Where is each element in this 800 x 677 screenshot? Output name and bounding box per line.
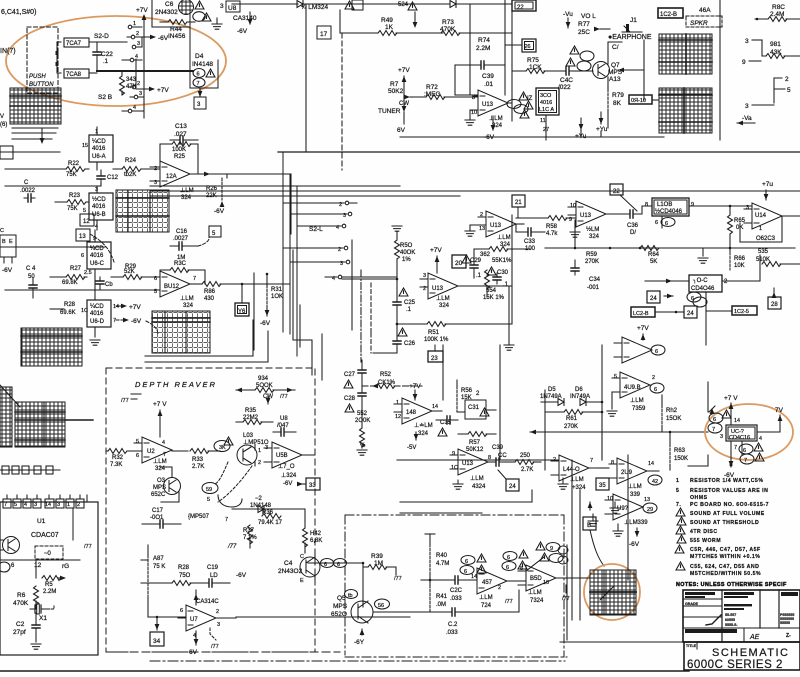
capacitor C40 .022 [558,67,587,91]
svg-text:7.3K: 7.3K [110,462,122,468]
svg-text:5: 5 [676,488,679,494]
rail y248 [545,247,795,250]
label k77 [227,544,237,550]
svg-text:U8: U8 [228,5,237,12]
svg-text:J1: J1 [630,17,637,24]
svg-text:R52: R52 [380,372,392,378]
svg-text:4: 4 [24,502,27,508]
svg-text:⊥LM: ⊥LM [436,295,450,302]
svg-text:LC2-B: LC2-B [633,311,649,317]
svg-text:724: 724 [481,603,492,609]
svg-text:7: 7 [193,276,196,282]
capacitor C33 feedback [516,224,545,252]
svg-text:/77: /77 [394,576,402,582]
svg-text:3: 3 [217,622,220,628]
node box 34 [148,616,186,646]
svg-text:6: 6 [464,569,467,575]
ground R54 [504,287,514,350]
diag wire left [0,385,20,407]
terminal 3 right [745,38,762,45]
capacitor C35b [436,416,458,426]
svg-text:14: 14 [734,418,740,424]
svg-text:2: 2 [136,31,139,37]
wire vertical S2 column [143,48,145,118]
label +Yu right [575,118,587,140]
svg-text:14: 14 [113,304,119,310]
vertical x706 [705,292,707,345]
svg-text:-6V: -6V [236,572,247,579]
svg-text:6: 6 [507,555,510,561]
svg-text:PUSH: PUSH [29,74,46,80]
svg-text:15OK: 15OK [666,416,681,422]
svg-text:29: 29 [647,507,653,513]
capacitor C13 [170,123,198,144]
svg-text:R61: R61 [566,416,578,422]
svg-text:R31: R31 [271,287,283,293]
svg-text:3: 3 [137,41,140,47]
wire U9 chain vertical [601,412,603,460]
svg-text:½CD: ½CD [92,196,106,203]
svg-text:+7V: +7V [409,383,421,390]
resistor H42 6.8K [303,520,323,553]
circled 5b [202,483,218,504]
hatch grid bottom right [590,570,636,615]
svg-text:934: 934 [258,376,269,382]
node box 12 [80,214,94,226]
terminal 1 [128,21,142,29]
svg-text:7: 7 [4,502,7,508]
hatch speaker grid B [659,88,712,133]
wire JO-C in [645,279,689,284]
capacitor C19 [205,565,230,587]
svg-text:/77: /77 [84,544,92,550]
resistor R28 750 [163,565,204,586]
svg-text:4016: 4016 [92,204,106,210]
svg-text:R72: R72 [426,84,438,91]
svg-text:8: 8 [611,460,614,466]
resistor R36 79.4K [258,510,283,526]
vertical x342 [341,33,343,170]
svg-text:4.7k: 4.7k [546,231,558,237]
wire x254 vertical [253,273,255,350]
svg-text:OHMS: OHMS [690,495,708,501]
svg-text:C4: C4 [284,560,293,567]
svg-text:C: C [0,228,4,234]
svg-text:981: 981 [770,41,781,48]
svg-text:⊥7_O: ⊥7_O [278,463,295,470]
svg-text:C: C [300,554,304,560]
svg-text:+7V: +7V [136,7,148,14]
node box 22 top [512,0,536,11]
vertical x306 [305,5,307,152]
svg-text:75O: 75O [179,573,191,579]
svg-text:A13: A13 [609,76,621,83]
ic U8 [220,1,257,35]
svg-text:4.7M: 4.7M [436,561,449,567]
svg-text:C36: C36 [627,223,639,229]
wire right link [218,174,291,234]
capacitor C18 .047 [273,416,296,436]
warning diamonds top [193,1,211,21]
wire S2L4 to R50 [342,278,396,280]
svg-text:50K2: 50K2 [388,88,404,95]
svg-text:R23: R23 [69,193,81,199]
node box 24b [677,306,697,318]
wire bottom left entry [141,560,163,583]
small box top [352,0,450,10]
svg-text:S2-D: S2-D [94,33,109,40]
vertical bus x283 [282,152,284,332]
ground L44 [558,478,568,489]
svg-text:35: 35 [599,483,606,489]
svg-text:CA3140: CA3140 [233,15,257,22]
wire vertical inner [135,59,137,87]
svg-text:+7V: +7V [637,325,649,332]
ground rail248 [698,248,708,263]
svg-text:2U9: 2U9 [621,470,633,476]
svg-text:M5TCHED/WITHIN 50.5%: M5TCHED/WITHIN 50.5% [690,571,761,577]
potentiometer R7 50K TUNER [378,67,413,134]
svg-text:C25: C25 [404,300,416,306]
svg-text:4324: 4324 [472,484,486,490]
svg-text:~0: ~0 [44,551,52,557]
svg-text:R28: R28 [64,302,76,308]
svg-text:IZ: IZ [527,96,533,102]
terminal 4b [122,105,144,113]
svg-text:⊥324: ⊥324 [281,472,297,479]
svg-text:D4: D4 [195,53,204,60]
wire B5D diag [526,557,544,571]
capacitor C39b [488,445,515,466]
svg-text:MPS: MPS [153,485,166,491]
wire depth out [292,509,305,520]
svg-text:R36: R36 [262,510,274,516]
svg-text:2: 2 [216,609,219,615]
svg-text:.1: .1 [103,59,109,65]
svg-text:7359: 7359 [632,406,646,412]
svg-text:X1: X1 [39,615,47,622]
label V6 left [0,114,7,128]
capacitor C20 [421,576,477,602]
diode D5 [540,387,564,406]
svg-text:R63: R63 [674,448,686,454]
terminal 3b right [745,103,774,110]
svg-text:10: 10 [570,203,576,209]
svg-text:9: 9 [452,451,455,457]
node box 17 [317,26,331,39]
node 3 box below D4 [194,88,206,109]
svg-text:−2: −2 [255,496,263,502]
svg-text:13: 13 [644,497,650,503]
wire 7CA8 row [89,72,97,74]
title check mark [706,615,760,642]
svg-text:23: 23 [431,356,438,362]
ground U9B [607,392,617,416]
svg-text:5K: 5K [650,259,657,265]
svg-text:9: 9 [569,217,572,223]
svg-text:8: 8 [645,202,648,208]
svg-text:59: 59 [206,487,212,493]
svg-text:CA314C: CA314C [196,599,219,605]
circled 3a [214,437,233,452]
vertical dashed x371 [370,283,372,353]
circled 56 [375,599,390,609]
op-amp U9B [612,372,664,412]
terminal 9 right [742,59,761,66]
svg-text:CK1%: CK1% [378,380,396,386]
wire y432 arrow left [530,430,708,435]
svg-text:LD: LD [210,573,218,579]
svg-text:C: C [24,180,29,186]
svg-text:R56: R56 [461,388,473,394]
svg-text:SOUND AT FULL VOLUME: SOUND AT FULL VOLUME [690,511,765,517]
svg-text:.0027: .0027 [173,236,189,242]
svg-text:╮O-C: ╮O-C [692,278,708,284]
resistor R55 200K [355,411,370,449]
svg-text:-6Y: -6Y [354,639,365,646]
capacitor C30 [487,267,509,288]
svg-text:(6): (6) [0,122,7,128]
depth box dashed [106,368,315,652]
svg-text:10K: 10K [734,263,745,269]
inverse box TC2-B [658,8,683,18]
svg-text:/047: /047 [277,423,289,429]
svg-text:CDAC07: CDAC07 [31,532,59,539]
svg-text:362: 362 [480,252,491,258]
dashed bottom lines [106,642,683,657]
resistor R8 22M [36,560,66,595]
wire bus row2 [5,289,160,291]
svg-text:R86: R86 [204,289,216,295]
label +7V bottom mid [637,325,649,340]
ic U6-C CD4016 [81,230,111,277]
svg-text:1OK: 1OK [271,294,283,300]
svg-text:B: B [587,522,591,529]
svg-text:R28: R28 [178,565,190,571]
svg-text:3CO: 3CO [540,93,552,99]
svg-text:6: 6 [506,565,509,571]
svg-text:SOUND AT THRESHOLD: SOUND AT THRESHOLD [690,520,759,526]
svg-text:-6V: -6V [2,267,13,274]
vertical left of ellipse [688,382,708,466]
U1 label [31,518,59,539]
svg-text:75 K: 75 K [153,564,165,570]
svg-text:2: 2 [137,81,140,87]
svg-text:1: 1 [676,478,679,484]
dashed contact [35,546,63,559]
ground U1 right [73,508,92,550]
svg-text:652C: 652C [151,492,166,498]
svg-text:.033: .033 [450,596,462,602]
svg-text:C.2: C.2 [448,622,458,628]
svg-text:L1C A: L1C A [539,107,554,113]
svg-text:CD4C16: CD4C16 [729,435,750,441]
wire S2L bus links [283,203,330,262]
resistor R43 47K [120,71,137,95]
svg-text:.1: .1 [503,282,509,288]
resistor R24 [113,158,160,178]
svg-text:⊥LM: ⊥LM [528,589,542,596]
svg-text:11: 11 [540,118,546,124]
svg-text:R74: R74 [478,37,490,44]
svg-text:26: 26 [525,44,531,50]
pin row boxes left [0,466,60,474]
capacitor C36 [606,206,652,236]
terminal 3b [130,87,144,99]
resistor R39 1M [363,553,402,582]
svg-text:/022: /022 [558,84,571,91]
ic UC CD4016 [720,425,762,451]
svg-text:148: 148 [406,410,417,416]
svg-text:H42: H42 [310,531,322,537]
svg-text:R73: R73 [442,19,454,26]
op-amp BU12 [152,271,196,309]
label +7V c28 [409,383,421,400]
svg-text:33: 33 [309,483,316,489]
op-amp U14 [744,203,800,242]
svg-text:+324: +324 [572,485,586,491]
svg-text:3: 3 [745,103,749,110]
svg-text:U5B: U5B [276,453,288,459]
long rail y191 [150,190,800,192]
svg-text:552: 552 [357,411,368,417]
svg-text:DEPTH REAVER: DEPTH REAVER [135,380,217,389]
svg-text:.01: .01 [484,81,493,88]
svg-text:6: 6 [197,72,200,78]
svg-text:U13: U13 [432,286,444,292]
node box 35 [596,478,609,490]
wire y460 [397,459,559,461]
svg-text:6: 6 [665,221,668,227]
svg-text:¼CD: ¼CD [90,304,104,310]
title main row [684,642,800,671]
wire Q5 out [373,611,425,613]
svg-text:52K: 52K [124,269,135,275]
resistor R63 150K [669,431,688,470]
wire U13C out [515,217,517,219]
op-amp U13B [420,273,512,309]
svg-text:V: V [0,114,4,120]
svg-text:R32: R32 [112,455,124,461]
svg-text:554: 554 [486,288,497,294]
svg-text:rG: rG [62,563,69,570]
svg-text:2: 2 [258,460,261,466]
label 46A [699,7,711,14]
switch box 7CA7 [64,38,89,47]
svg-text:D/: D/ [630,230,636,236]
svg-text:BU12: BU12 [164,284,180,290]
svg-text:NOTES: UNLESS OTHERWISE SPECIF: NOTES: UNLESS OTHERWISE SPECIF [676,582,787,588]
resistor R37 [243,525,257,548]
svg-text:50: 50 [28,274,35,280]
svg-text:⊥LM: ⊥LM [153,458,167,465]
svg-text:R3C: R3C [174,261,187,267]
resistor R31 10K [260,274,283,327]
vertical bus x297 [296,186,298,356]
svg-text:D6: D6 [575,387,583,393]
title block texts [685,592,798,639]
svg-text:10: 10 [607,496,613,502]
vertical x602 [601,345,604,460]
svg-text:1C: 1C [451,465,458,471]
terminal 2 far right [774,76,789,88]
svg-text:6: 6 [713,417,716,423]
svg-text:C31: C31 [468,405,480,411]
label -Va arrow [737,115,755,125]
svg-text:U13: U13 [580,213,592,219]
terminal 5 far right [774,87,791,103]
svg-text:1C2-B: 1C2-B [660,12,677,18]
ground bottom right [588,502,620,513]
svg-text:C19: C19 [207,565,219,571]
svg-text:U2: U2 [147,449,155,455]
svg-text:D5: D5 [548,387,556,393]
svg-text:324: 324 [418,431,429,437]
svg-text:-6V: -6V [260,320,271,327]
svg-text:U14: U14 [755,213,767,219]
svg-text:●EARPHONE: ●EARPHONE [608,34,652,41]
ic L1C-A 4016 [527,88,559,140]
svg-text:tb: tb [348,593,353,599]
svg-text:6,C41,S#0): 6,C41,S#0) [1,9,36,16]
svg-text:R58: R58 [546,224,558,230]
svg-text:R37: R37 [243,528,255,534]
resistor R72 1MEG [413,84,478,100]
wire left edge row [0,146,60,159]
resistor R26 22K [206,174,227,215]
svg-text:7V: 7V [775,407,784,414]
svg-text:R57: R57 [469,440,481,446]
resistor R56 4.7K [516,216,576,238]
op-amp U9C [609,458,662,498]
svg-text:RESISTOR VALUES ARE IN: RESISTOR VALUES ARE IN [690,488,768,494]
op-amp U5A [394,398,447,451]
resistor R75 1CK [512,57,564,74]
arrow -6V [135,35,169,42]
wire uc down [724,441,735,479]
transistor in U1 [0,537,20,554]
inverse box LC2-B [631,307,677,317]
svg-text:50K12: 50K12 [466,447,484,453]
label quarter LM324 top [301,1,354,11]
svg-text:U8: U8 [280,416,288,422]
svg-text:+7V: +7V [398,67,410,74]
dashed transistor links [214,462,252,502]
svg-text:C2C: C2C [450,588,463,594]
svg-text:/77: /77 [280,394,288,400]
svg-text:9: 9 [691,202,694,208]
op-amp U2 depth [128,437,172,472]
svg-text:6: 6 [465,559,468,565]
transistor Q4b small [218,495,242,507]
svg-text:79.4K 17: 79.4K 17 [258,520,283,526]
svg-text:12: 12 [83,219,90,225]
svg-text:R39: R39 [371,553,383,560]
svg-text:21: 21 [515,200,522,206]
resistor R22 75K [55,161,89,178]
svg-text:C17: C17 [152,508,164,514]
dashdot bottom second [150,660,565,662]
svg-text:⊥LM: ⊥LM [489,115,503,122]
resistor R23 75K [55,193,89,212]
svg-text:R79: R79 [612,92,624,99]
node box 33 [297,478,320,490]
svg-text:O3: O3 [157,478,166,484]
resistor R57 50K [458,432,496,454]
ground U13E [453,480,463,489]
capacitor C21 .033 [410,590,519,636]
U1 pin header [3,495,87,508]
